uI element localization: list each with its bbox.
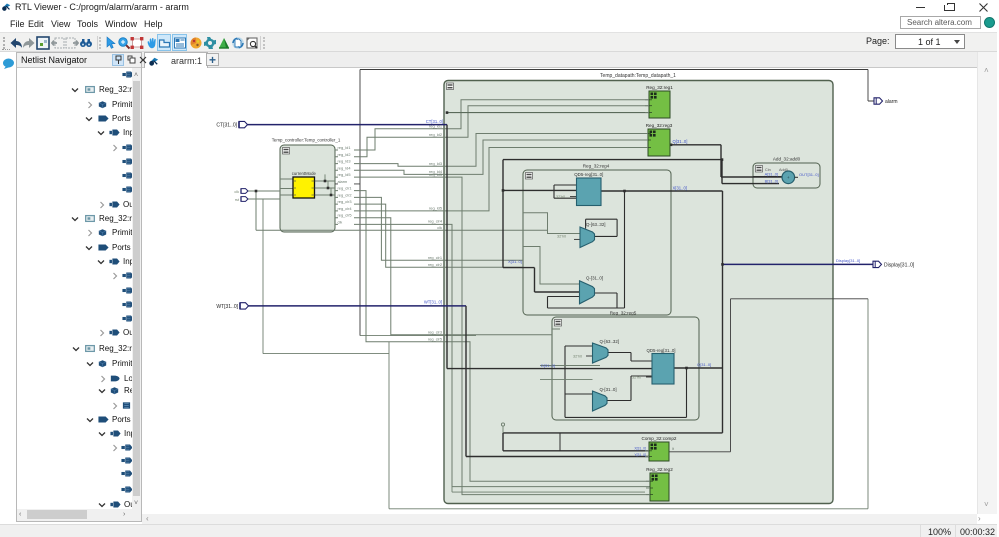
svg-text:Display[31..0]: Display[31..0]: [884, 262, 915, 268]
svg-text:Comp_32:comp2: Comp_32:comp2: [642, 436, 677, 441]
bus B-line: [503, 160, 722, 292]
bus reg5 feedback: [565, 346, 687, 417]
svg-text:Reg_32:reg3: Reg_32:reg3: [646, 123, 673, 128]
svg-text:WT[31..0]: WT[31..0]: [424, 300, 442, 305]
svg-text:reg_ld5: reg_ld5: [429, 172, 442, 177]
wire reg_clr4: [335, 148, 648, 211]
bus QD5a feedback: [554, 185, 577, 198]
wire alarm-net top rail: [335, 70, 874, 336]
adder circle add0: [753, 168, 798, 183]
svg-text:Reg_32:reg5: Reg_32:reg5: [610, 311, 637, 316]
input pin rst: [235, 197, 248, 202]
labels controller pins: [338, 145, 353, 224]
junction QD5a-D: [502, 189, 505, 192]
junction Xfb: [623, 190, 626, 193]
register Reg_32 reg3: [644, 123, 673, 156]
svg-text:B[31..0]: B[31..0]: [765, 178, 778, 183]
left dock strip: [0, 52, 16, 537]
stub 32h0 qd5b: [646, 376, 652, 378]
svg-text:reg_ld3: reg_ld3: [429, 161, 442, 166]
svg-text:reg_ld2: reg_ld2: [429, 132, 442, 137]
svg-text:clk: clk: [338, 219, 343, 224]
wire reg5 selects: [540, 329, 600, 379]
wire clk stub: [247, 190, 280, 192]
stub 32h0 mux3: [586, 355, 593, 357]
wire yellow-out1: [315, 174, 336, 181]
wire reg_ld3: [335, 134, 648, 167]
mux Q-31-0 (reg5): [593, 387, 617, 411]
register QD5-reg (reg4): [574, 172, 603, 206]
svg-text:alarm: alarm: [338, 179, 348, 184]
svg-text:reg_ld1: reg_ld1: [338, 145, 351, 150]
junction clk: [255, 190, 258, 193]
svg-text:rst: rst: [235, 198, 240, 202]
svg-text:clk: clk: [437, 225, 442, 230]
bus mux2 out loop: [548, 293, 618, 308]
svg-text:CT[31..0]: CT[31..0]: [216, 123, 237, 129]
search box: [900, 16, 981, 29]
svg-text:32'h0: 32'h0: [632, 376, 641, 380]
canvas v scrollbar: [977, 52, 997, 514]
mux Q-63-32 (reg4): [580, 222, 606, 248]
svg-text:reg_ld3: reg_ld3: [338, 159, 351, 164]
module Temp_datapath U_dp: [444, 73, 833, 504]
bus mux3 out: [608, 353, 652, 362]
svg-text:Q-[63..32]: Q-[63..32]: [600, 339, 620, 344]
svg-text:QD5-reg[31..0]: QD5-reg[31..0]: [574, 172, 603, 177]
svg-text:currentMode: currentMode: [292, 171, 317, 176]
svg-text:Q[31..0]: Q[31..0]: [697, 362, 711, 367]
wire rst loop bottom: [263, 199, 868, 509]
wire yellow-out2: [315, 181, 336, 189]
svg-text:reg_clr3: reg_clr3: [428, 330, 442, 335]
svg-text:Q-[31..0]: Q-[31..0]: [586, 276, 603, 281]
svg-text:A[31..0]: A[31..0]: [765, 171, 778, 176]
bus QD5a-D tap: [503, 189, 577, 191]
register QD5-reg (reg5): [646, 348, 675, 384]
input pin clk: [234, 189, 248, 194]
bus mux4 out: [607, 376, 652, 401]
wire reg_clr3: [335, 204, 523, 267]
svg-text:reg_clr4: reg_clr4: [428, 218, 443, 223]
svg-text:Temp_datapath:Temp_datapath_1: Temp_datapath:Temp_datapath_1: [600, 73, 676, 79]
bus X out: [601, 190, 723, 192]
wire bottom nested: [452, 487, 645, 493]
svg-text:reg_ld5: reg_ld5: [429, 206, 442, 211]
bus reg3-Q to add A: [670, 145, 782, 177]
bus WT to comp: [466, 306, 649, 457]
svg-text:Q[31..0]: Q[31..0]: [673, 139, 688, 144]
junction y1: [324, 180, 327, 183]
wire reg_clr2: [335, 197, 523, 260]
menu bar: [0, 16, 997, 32]
bus WT[31..0]: [247, 305, 467, 307]
labels datapath edge: [428, 124, 443, 342]
svg-text:Reg_32:reg4: Reg_32:reg4: [583, 164, 610, 169]
register Reg_32 reg1: [645, 85, 673, 118]
wire reg_ld1: [335, 100, 649, 150]
output pin alarm: [874, 98, 898, 105]
wire reg_ld5: [335, 177, 650, 495]
svg-text:reg_ld5: reg_ld5: [338, 172, 351, 177]
wire CT branch to reg1 D: [447, 112, 649, 114]
junction y3: [330, 194, 333, 197]
wire reg_clr5: [335, 218, 552, 335]
module Add_32 add0 wrapper: [753, 157, 820, 189]
module Reg_32 reg4 wrapper: [523, 164, 671, 316]
bus comp loop right: [559, 433, 561, 451]
wire alarm into datapath: [360, 335, 476, 337]
junction reg3q: [670, 144, 673, 147]
open endpoint: [502, 426, 504, 433]
canvas h scrollbar: [142, 514, 977, 524]
junction y2: [327, 187, 330, 190]
svg-text:WT[31..0]: WT[31..0]: [216, 304, 238, 310]
svg-text:X[31..0]: X[31..0]: [673, 185, 687, 190]
wire yellow-in: [280, 179, 293, 195]
tab bar row: [142, 52, 977, 68]
input pin CT[31..0]: [216, 121, 247, 128]
bus X down to display and comp: [503, 191, 723, 451]
svg-text:Add_32:add0: Add_32:add0: [773, 157, 801, 162]
svg-text:32'h0: 32'h0: [573, 355, 582, 359]
junction B: [721, 158, 724, 161]
bus B to add: [722, 160, 779, 184]
wire reg_clr6: [335, 224, 650, 486]
input pin WT[31..0]: [216, 303, 248, 310]
svg-text:reg_clr1: reg_clr1: [428, 255, 442, 260]
state machine currentMode: [292, 171, 317, 198]
svg-text:32'h0: 32'h0: [556, 195, 565, 199]
svg-text:Q-[31..0]: Q-[31..0]: [600, 387, 617, 392]
svg-text:reg_clr5: reg_clr5: [338, 213, 352, 218]
svg-text:Display[31..0]: Display[31..0]: [836, 258, 860, 263]
bus X feedback down: [617, 191, 625, 308]
stub 32h0 mux1: [574, 238, 580, 240]
wire yellow-out3: [315, 188, 336, 196]
svg-text:alarm: alarm: [885, 99, 898, 105]
svg-text:D[31..0]: D[31..0]: [541, 363, 555, 368]
Page selector: [866, 36, 890, 46]
svg-text:Add0: Add0: [779, 168, 788, 172]
mux Q-63-32 (reg5): [593, 339, 620, 363]
svg-text:reg_clr4: reg_clr4: [338, 206, 353, 211]
svg-text:reg_clr2: reg_clr2: [428, 262, 442, 267]
svg-text:reg_clr3: reg_clr3: [338, 199, 352, 204]
tree v scrollbar: [132, 68, 141, 511]
title bar: [0, 0, 997, 16]
wire clk rail: [256, 191, 548, 234]
wire rst stub: [247, 198, 280, 200]
comparator Comp_32 comp2: [642, 436, 677, 461]
svg-text:Reg_32:reg1: Reg_32:reg1: [646, 85, 673, 90]
tree h scrollbar: [17, 509, 141, 521]
wire reg_ld2: [335, 106, 649, 157]
svg-text:Y[31..0]: Y[31..0]: [634, 453, 646, 457]
svg-text:X[31..0]: X[31..0]: [508, 259, 522, 264]
module Reg_32 reg5 wrapper: [552, 311, 699, 421]
module Temp_controller U_ctl: [272, 138, 341, 233]
svg-text:X[31..0]: X[31..0]: [634, 447, 646, 451]
stub 32h0 qd5a: [570, 196, 577, 198]
svg-text:Temp_controller:Temp_controlle: Temp_controller:Temp_controller_1: [272, 138, 341, 143]
bus mux1 out loop: [586, 219, 618, 236]
svg-text:+: +: [787, 175, 790, 180]
register Reg_32 reg2: [646, 467, 673, 501]
svg-text:Reg_32:reg2: Reg_32:reg2: [646, 467, 673, 472]
bus Display: [723, 263, 874, 265]
svg-text:clk: clk: [234, 190, 239, 194]
wire mux1 clk in: [523, 213, 580, 234]
wire reg_clr1: [335, 191, 650, 482]
wire reg_ld4: [335, 140, 648, 174]
toolbar: [0, 32, 997, 52]
canvas: [142, 68, 977, 514]
status bar: [0, 524, 997, 537]
svg-text:reg_ld1: reg_ld1: [429, 124, 442, 129]
Netlist Navigator panel: [16, 52, 142, 522]
bus QD5b out: [674, 367, 723, 369]
active tab: [144, 52, 208, 68]
bus CT into reg5 D: [447, 125, 652, 369]
mux Q-31-0 (reg4): [580, 276, 604, 304]
wire mux2 gray in: [523, 247, 579, 285]
svg-text:reg_ld4: reg_ld4: [338, 165, 352, 170]
svg-text:Q-[63..32]: Q-[63..32]: [586, 222, 606, 227]
junction display: [721, 263, 724, 266]
wire comp-out to right rail: [669, 299, 868, 452]
bus CT[31..0]: [248, 124, 448, 126]
junction qd5b: [685, 367, 688, 370]
svg-text:OUT[31..0]: OUT[31..0]: [799, 172, 819, 177]
svg-text:QD5-reg[31..0]: QD5-reg[31..0]: [646, 348, 675, 353]
svg-text:reg_clr2: reg_clr2: [338, 192, 352, 197]
output pin Display[31..0]: [873, 261, 915, 268]
svg-text:reg_clr1: reg_clr1: [338, 186, 352, 191]
svg-text:32'h0: 32'h0: [557, 235, 566, 239]
svg-text:reg_clr5: reg_clr5: [428, 337, 442, 342]
svg-text:reg_ld2: reg_ld2: [338, 152, 351, 157]
